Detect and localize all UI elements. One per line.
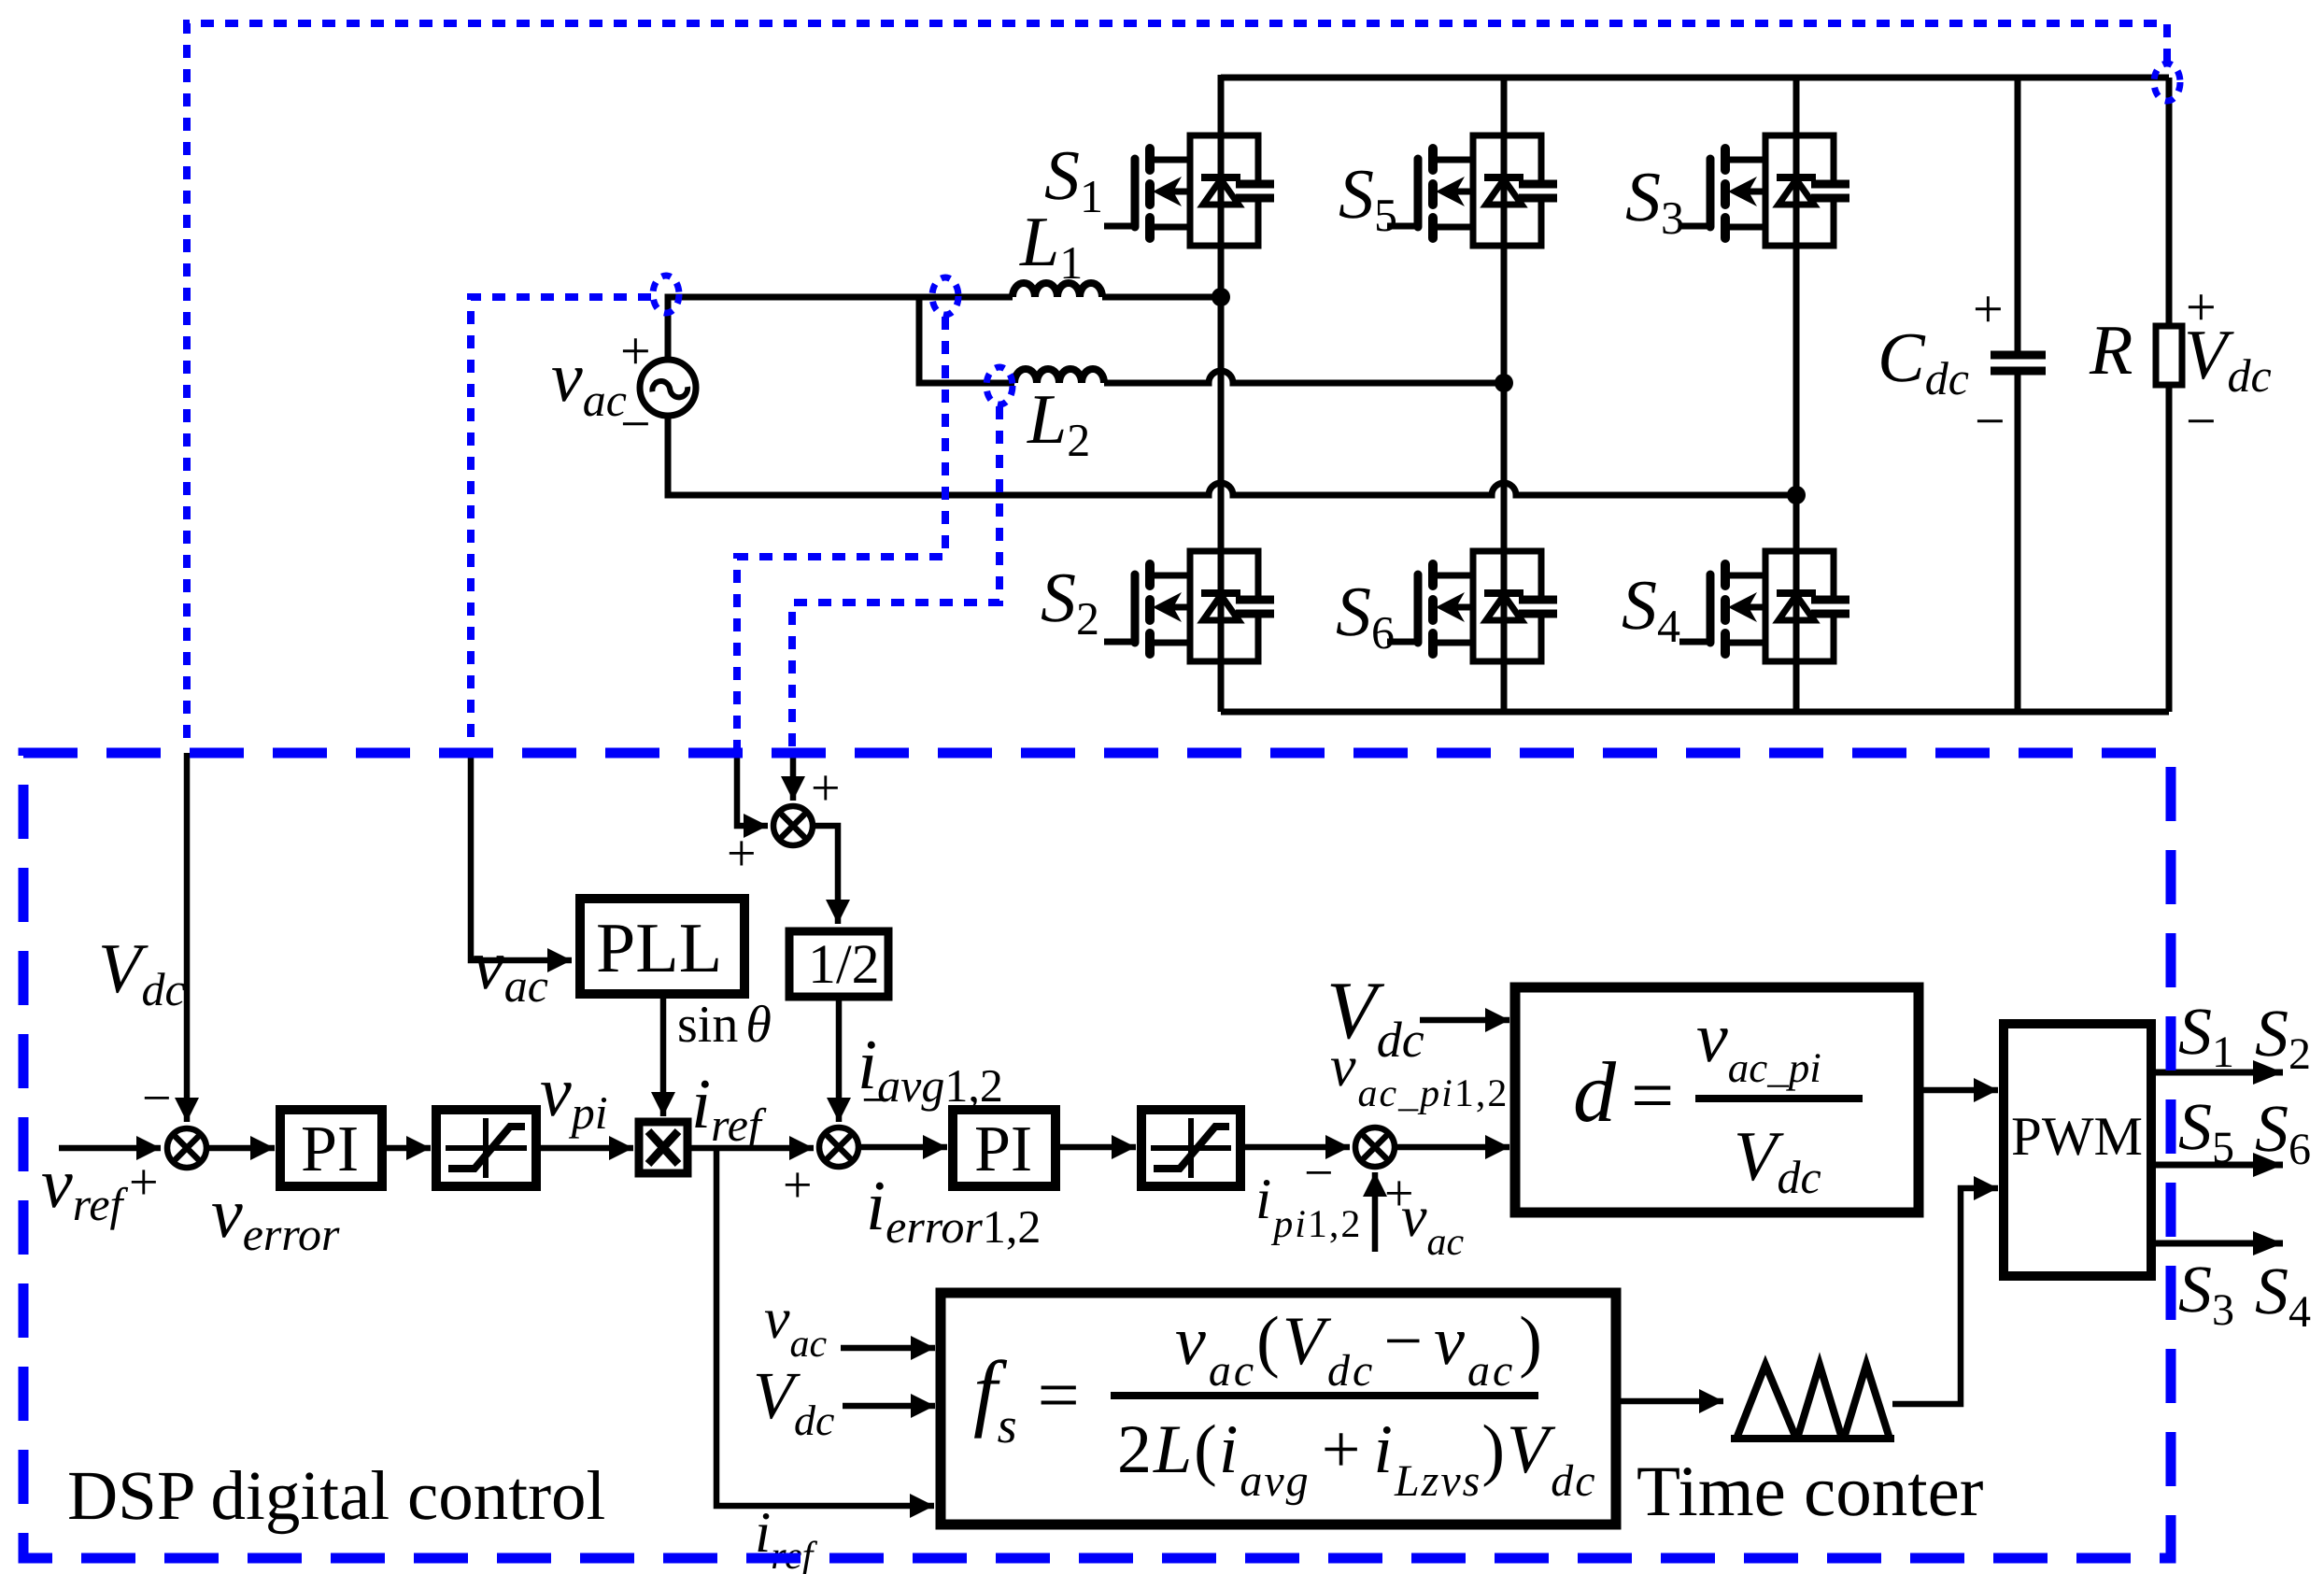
wire vac sense to PLL: [471, 753, 572, 960]
svg-text:DSP digital control: DSP digital control: [67, 1457, 605, 1535]
gain 1/2 block: [789, 931, 888, 997]
svg-text:−: −: [861, 1071, 891, 1129]
summer U2: [773, 806, 813, 845]
svg-text:R: R: [2089, 311, 2133, 390]
wire L2 to leg2 node with hop over leg1: [1104, 371, 1504, 383]
wire half block to summer3: [836, 997, 843, 1122]
sense probe circle Vdc: [2154, 64, 2180, 101]
transistor S4: [1679, 551, 1849, 661]
svg-text:+: +: [783, 1156, 813, 1214]
wire iL2 sense into summer2: [790, 753, 797, 801]
inductor L1: [1013, 283, 1102, 297]
svg-text:PWM: PWM: [2011, 1105, 2143, 1167]
wire limiter2 to summer4: [1240, 1144, 1350, 1151]
dotted iL2 sense line: [792, 406, 999, 748]
limiter 1: [436, 1110, 536, 1186]
wire summer1 to PI1: [206, 1145, 275, 1152]
PI controller 1: [280, 1110, 382, 1186]
wire PI2 to limiter2: [1056, 1144, 1136, 1151]
wire vac feedforward into summer4: [1372, 1172, 1379, 1252]
wire PI1 to limiter1: [382, 1145, 431, 1152]
capacitor Cdc branch: [2015, 78, 2021, 712]
wire PWM out S3S4: [2151, 1241, 2283, 1247]
svg-text:PLL: PLL: [596, 909, 722, 987]
wire bridge leg 1 (S1/S2): [1218, 75, 1225, 712]
wire multiplier to summer3: [687, 1145, 814, 1152]
transistor S5: [1387, 135, 1557, 246]
wire PWM out S1S2: [2151, 1070, 2283, 1076]
wire summer2 to half block: [813, 826, 838, 924]
fs equation block: [941, 1293, 1616, 1524]
svg-text:+: +: [2186, 277, 2217, 337]
svg-text:−: −: [1304, 1144, 1334, 1202]
node return/leg3: [1787, 486, 1806, 504]
wire bridge leg 2 (S5/S6): [1501, 75, 1508, 712]
wire Vdc into d block: [1420, 1017, 1509, 1024]
svg-text:PI: PI: [301, 1113, 359, 1185]
summer U3: [819, 1127, 858, 1167]
svg-text:+: +: [727, 825, 757, 883]
triangle carrier symbol: [1731, 1365, 1894, 1439]
svg-text:−: −: [620, 393, 651, 454]
wire vac into fs: [841, 1345, 935, 1352]
wire summer4 to d block: [1395, 1144, 1509, 1151]
svg-text:+: +: [811, 759, 841, 817]
PLL block: [580, 899, 744, 994]
wire Vdc sense into summer1: [184, 753, 191, 1122]
node L2/leg2: [1495, 374, 1513, 392]
wire vref input: [59, 1145, 161, 1152]
svg-text:−: −: [1975, 390, 2005, 451]
transistor S6: [1387, 551, 1557, 661]
summer U1: [167, 1128, 206, 1168]
wire fs to triangle generator: [1616, 1398, 1723, 1405]
duty block d=vac_pi/Vdc: [1515, 987, 1919, 1212]
sense probe circle vac: [653, 276, 679, 313]
wire vac return to leg3 node with hops: [668, 416, 1796, 495]
limiter 2: [1141, 1110, 1240, 1186]
transistor S2: [1104, 551, 1274, 661]
node L1/leg1: [1212, 288, 1230, 306]
dotted iL1 sense line: [737, 317, 945, 748]
wire iref branch to fs block: [716, 1148, 934, 1506]
wire triangle to PWM: [1892, 1188, 1998, 1404]
svg-text:Time conter: Time conter: [1637, 1451, 1983, 1531]
svg-text:+: +: [620, 320, 651, 381]
PWM block: [2004, 1024, 2151, 1276]
transistor S3: [1679, 135, 1849, 246]
wire PLL to multiplier: [660, 994, 667, 1116]
wire bridge leg 3 (S3/S4): [1793, 75, 1800, 712]
inductor L2: [1014, 369, 1104, 383]
sense probe circle iL2: [986, 367, 1013, 404]
wire iL1 sense into summer2: [737, 753, 768, 826]
dotted vac sense line: [471, 297, 651, 748]
summer U4: [1355, 1127, 1395, 1167]
wire branch down to L2: [919, 297, 1014, 383]
wire PWM out S5S6: [2151, 1162, 2283, 1169]
wire summer3 to PI2: [858, 1144, 947, 1151]
svg-text:+: +: [129, 1154, 159, 1212]
multiplier X1: [639, 1122, 687, 1173]
resistor R branch: [2166, 78, 2173, 712]
wire bottom dc rail: [1221, 709, 2169, 716]
svg-text:PI: PI: [974, 1113, 1032, 1185]
wire top dc rail: [1221, 75, 2169, 81]
svg-text:+: +: [1973, 278, 2004, 339]
wire limiter1 to multiplier: [536, 1145, 633, 1152]
svg-text:−: −: [142, 1070, 172, 1127]
svg-text:1/2: 1/2: [808, 933, 880, 995]
transistor S1: [1104, 135, 1274, 246]
PI controller 2: [953, 1110, 1056, 1186]
svg-text:sinθ: sinθ: [677, 996, 772, 1054]
sense probe circle iL1: [932, 277, 958, 315]
wire d block to PWM: [1919, 1087, 1998, 1094]
wire vac to bridge top (L1 branch): [668, 297, 1013, 360]
dotted Vdc sense line: [187, 23, 2167, 748]
DSP dashed boundary box: [23, 753, 2171, 1558]
wire L1 to leg1 node: [1102, 294, 1221, 301]
ac source vac: [640, 360, 696, 416]
wire Vdc into fs: [843, 1403, 935, 1410]
svg-text:−: −: [2186, 390, 2217, 451]
